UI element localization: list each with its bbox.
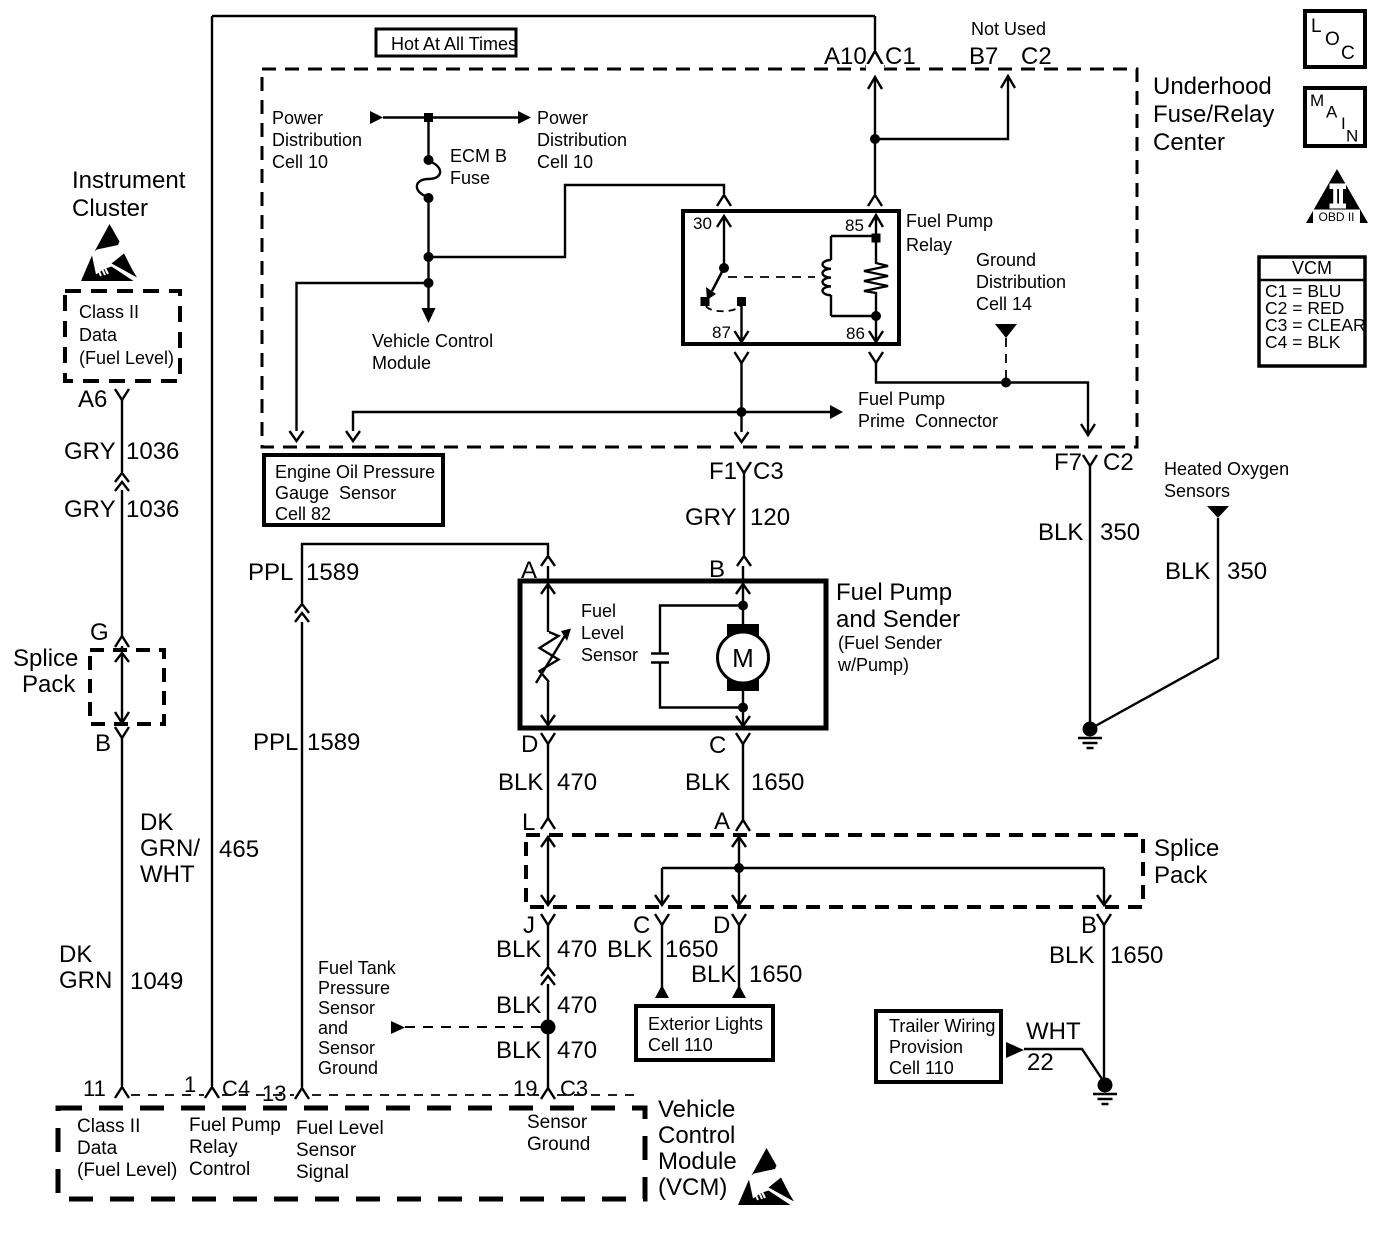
connector: VCM pin 19/C3 [541, 1088, 555, 1099]
svg-text:F1: F1 [709, 458, 737, 485]
arrow: exterior lights D [732, 985, 746, 998]
node: fuse tap square [424, 113, 433, 122]
splice L internal double arrow [547, 837, 549, 905]
Vehicle Control Module dashed box [58, 1108, 645, 1199]
svg-text:BLK: BLK [496, 992, 541, 1019]
svg-text:C3: C3 [753, 458, 784, 485]
svg-text:Splice: Splice [13, 645, 78, 672]
svg-text:VCM: VCM [1292, 258, 1332, 278]
svg-text:B: B [709, 556, 725, 583]
svg-text:w/Pump): w/Pump) [837, 655, 909, 675]
connector: below relay pin 86 [869, 352, 883, 363]
svg-text:470: 470 [557, 936, 597, 963]
svg-text:465: 465 [219, 836, 259, 863]
svg-text:Data: Data [77, 1138, 118, 1159]
svg-text:C: C [1341, 43, 1355, 64]
node: splice bus junction [734, 863, 744, 873]
svg-text:Sensor: Sensor [318, 1038, 375, 1058]
svg-text:Sensor: Sensor [296, 1140, 357, 1161]
wire: power feed horizontal [383, 116, 518, 118]
connector: pump C [736, 733, 750, 744]
ESD symbol instrument cluster [81, 224, 137, 281]
svg-text:Cluster: Cluster [72, 195, 148, 222]
svg-text:A6: A6 [78, 386, 107, 413]
svg-text:Ground: Ground [976, 250, 1036, 270]
svg-text:BLK: BLK [1038, 519, 1083, 546]
relay resistor [864, 215, 888, 316]
fuel level sensor wire with arrows [547, 566, 549, 727]
svg-text:BLK: BLK [1165, 558, 1210, 585]
svg-text:1589: 1589 [307, 729, 360, 756]
svg-text:Cell 10: Cell 10 [537, 152, 593, 172]
connector: fuel pump B [737, 556, 751, 566]
connector: relay pin30 inline [717, 195, 731, 206]
relay switch pivot node [719, 263, 729, 273]
svg-text:C1: C1 [885, 43, 916, 70]
motor nodes [738, 601, 748, 611]
svg-text:Center: Center [1153, 129, 1225, 156]
fuel level sensor wiper arrow [536, 634, 566, 683]
svg-text:30: 30 [693, 214, 712, 233]
ESD symbol VCM [738, 1148, 794, 1205]
svg-text:Distribution: Distribution [976, 272, 1066, 292]
connector: A10/C1 at fuse center border [866, 51, 884, 67]
relay pin 30 arrow up [717, 216, 731, 227]
wire: top-left long horizontal from x=212 to A10 wire [212, 15, 875, 17]
svg-text:Provision: Provision [889, 1037, 963, 1057]
relay pin 86 arrow down [875, 316, 877, 341]
svg-text:Vehicle: Vehicle [658, 1096, 735, 1123]
svg-text:Heated Oxygen: Heated Oxygen [1164, 459, 1289, 479]
Engine Oil Pressure Gauge Sensor box [264, 455, 443, 525]
svg-text:BLK: BLK [498, 769, 543, 796]
svg-text:Ground: Ground [527, 1134, 590, 1155]
wire: splice branch C [661, 868, 663, 905]
Splice Pack dashed box (right) [526, 835, 1143, 907]
connector: B splice [115, 727, 129, 738]
svg-text:L: L [1311, 16, 1322, 37]
svg-text:Cell 110: Cell 110 [889, 1058, 954, 1078]
svg-text:D: D [521, 731, 538, 758]
svg-text:and: and [318, 1018, 348, 1038]
svg-text:Pressure: Pressure [318, 978, 390, 998]
svg-text:Vehicle Control: Vehicle Control [372, 331, 493, 351]
svg-text:87: 87 [712, 323, 731, 342]
svg-text:Cell 110: Cell 110 [648, 1035, 713, 1055]
node: junction to B7 [870, 134, 880, 144]
connector: VCM pin 1/C4 [205, 1087, 219, 1098]
svg-text:86: 86 [846, 324, 865, 343]
wire: to fuel pump relay pin 30 [429, 185, 725, 257]
svg-text:Splice: Splice [1154, 835, 1219, 862]
svg-text:Module: Module [372, 353, 431, 373]
relay coil top node square [872, 234, 881, 243]
chevron break GRY wire [115, 473, 129, 491]
svg-text:BLK: BLK [607, 936, 652, 963]
svg-text:C: C [633, 912, 650, 939]
svg-text:Cell 10: Cell 10 [272, 152, 328, 172]
arrow to Power Distribution left [370, 111, 383, 124]
svg-text:OBD II: OBD II [1318, 210, 1354, 224]
wire: BLK 350 left [1089, 466, 1091, 724]
svg-text:Trailer Wiring: Trailer Wiring [889, 1016, 995, 1036]
svg-text:D: D [713, 912, 730, 939]
svg-text:1036: 1036 [126, 496, 179, 523]
svg-text:1589: 1589 [306, 559, 359, 586]
svg-text:BLK: BLK [496, 1037, 541, 1064]
svg-text:Fuel Pump: Fuel Pump [189, 1115, 281, 1136]
wire: pin 87 down to F1 [740, 412, 742, 432]
svg-text:Distribution: Distribution [272, 130, 362, 150]
wire: pin 86 to F7 [876, 363, 1088, 434]
node: junction to relay feed [424, 252, 434, 262]
svg-text:ECM B: ECM B [450, 146, 507, 166]
svg-text:Sensors: Sensors [1164, 481, 1230, 501]
connector: relay pin85 inline [868, 195, 882, 206]
svg-text:GRN: GRN [59, 967, 112, 994]
svg-text:470: 470 [557, 992, 597, 1019]
svg-text:GRY: GRY [685, 504, 737, 531]
OBD II symbol [1306, 169, 1368, 223]
connector: splice L [541, 818, 555, 829]
svg-text:Hot At All Times: Hot At All Times [391, 34, 517, 54]
wire: motor to C [742, 691, 744, 727]
svg-text:Fuel Pump: Fuel Pump [858, 389, 945, 409]
svg-text:Instrument: Instrument [72, 167, 186, 194]
svg-text:Underhood: Underhood [1153, 73, 1272, 100]
svg-text:N: N [1346, 127, 1358, 146]
connector: F7 C2 [1083, 455, 1097, 466]
thin dashed pin line [131, 1094, 640, 1096]
fuel level sensor zigzag [540, 632, 559, 682]
connector: VCM pin 13 [295, 1088, 309, 1099]
svg-text:Ground: Ground [318, 1058, 378, 1078]
connector: splice A [736, 820, 750, 831]
svg-text:Sensor: Sensor [318, 998, 375, 1018]
Splice Pack dashed box (left) [90, 650, 164, 724]
svg-text:19: 19 [513, 1076, 537, 1101]
wire: BLK 470 D to L [547, 744, 549, 818]
wire: B down to ground [1103, 925, 1105, 1080]
svg-text:(Fuel Level): (Fuel Level) [79, 348, 174, 368]
svg-text:BLK: BLK [496, 936, 541, 963]
svg-text:A10: A10 [824, 43, 867, 70]
svg-text:Fuse/Relay: Fuse/Relay [1153, 101, 1274, 128]
svg-text:1049: 1049 [130, 968, 183, 995]
arrow: ground distribution down triangle [995, 324, 1017, 338]
chevron break PPL wire [295, 604, 309, 622]
svg-text:Module: Module [658, 1148, 737, 1175]
wire: fuse to junction below [427, 198, 429, 308]
splice A internal wire [738, 835, 740, 905]
relay box [683, 211, 899, 344]
svg-text:Gauge Sensor: Gauge Sensor [275, 483, 396, 503]
svg-text:1650: 1650 [1110, 942, 1163, 969]
svg-text:J: J [523, 912, 535, 939]
wire: fuel level sensor signal drop (PPL) [301, 1086, 303, 1087]
wire: C down to exterior lights [661, 925, 663, 988]
svg-text:Signal: Signal [296, 1162, 349, 1183]
relay pin 87 square [737, 297, 746, 306]
arrowhead down at engine oil branch [290, 431, 304, 441]
wire: pin 87 to prime connector junction [740, 363, 742, 412]
LOC box [1305, 11, 1365, 67]
connector: G [115, 636, 129, 647]
node: fuel tank pressure sensor tap [541, 1020, 556, 1035]
svg-text:Class II: Class II [77, 1116, 140, 1137]
VCM connector table [1259, 257, 1365, 366]
connector: fuel pump A [541, 556, 555, 566]
wire: WHT 22 [1024, 1049, 1104, 1082]
svg-text:A: A [521, 557, 537, 584]
arrow+dashed wire: fuel tank pressure sensor [391, 1021, 405, 1034]
svg-text:GRN/: GRN/ [140, 835, 200, 862]
dashed wire from ground distribution [1005, 338, 1007, 383]
svg-text:Relay: Relay [189, 1137, 238, 1158]
svg-text:L: L [522, 809, 535, 836]
svg-text:C2: C2 [1103, 449, 1134, 476]
svg-text:BLK: BLK [1049, 942, 1094, 969]
svg-text:Data: Data [79, 325, 118, 345]
svg-text:1: 1 [184, 1072, 196, 1097]
wire: instrument cluster drop [121, 400, 123, 650]
svg-text:1650: 1650 [751, 769, 804, 796]
svg-text:Power: Power [537, 108, 588, 128]
svg-text:Fuel Pump: Fuel Pump [836, 579, 952, 606]
relay pin 87 wire down [740, 306, 742, 341]
svg-text:Pack: Pack [22, 671, 76, 698]
svg-text:Power: Power [272, 108, 323, 128]
svg-text:Fuel Level: Fuel Level [296, 1118, 384, 1139]
svg-text:Prime Connector: Prime Connector [858, 411, 998, 431]
svg-text:A: A [1326, 103, 1338, 122]
svg-text:DK: DK [59, 941, 92, 968]
Fuel Pump and Sender box [520, 581, 826, 728]
connector: below relay pin 87 [735, 352, 749, 363]
connector: A6 [115, 389, 129, 400]
svg-text:13: 13 [262, 1081, 286, 1106]
connector: F1 C3 [737, 462, 751, 473]
svg-text:F7: F7 [1054, 449, 1082, 476]
relay coil [830, 236, 832, 316]
arrow to Power Distribution right [518, 111, 531, 124]
dashed actuation line to coil [728, 276, 815, 278]
splice pack internal wire [115, 653, 129, 662]
svg-text:Fuel: Fuel [581, 601, 616, 621]
svg-text:Cell 82: Cell 82 [275, 504, 331, 524]
wire: B down to VCM pin 11 [121, 738, 123, 1086]
svg-text:B: B [95, 730, 111, 757]
svg-text:GRY: GRY [64, 438, 116, 465]
ground: heated oxygen [1078, 722, 1102, 749]
svg-text:C: C [709, 732, 726, 759]
relay coil bottom node [871, 311, 881, 321]
wire: PPL 1589 run [302, 544, 548, 1086]
arrow: Vehicle Control Module feed [422, 308, 436, 323]
svg-text:85: 85 [845, 216, 864, 235]
svg-text:470: 470 [557, 1037, 597, 1064]
svg-text:and Sender: and Sender [836, 606, 960, 633]
svg-text:(VCM): (VCM) [658, 1174, 727, 1201]
svg-text:M: M [732, 643, 754, 673]
svg-text:1650: 1650 [665, 936, 718, 963]
svg-text:1036: 1036 [126, 438, 179, 465]
capacitor [651, 654, 669, 663]
svg-text:WHT: WHT [1026, 1018, 1081, 1045]
svg-text:BLK: BLK [691, 961, 736, 988]
svg-text:C4: C4 [222, 1076, 250, 1101]
connector: B (splice) [1097, 914, 1111, 925]
Trailer Wiring Provision box [876, 1011, 1001, 1082]
wire: long left vertical line x=212 from top to VCM pin 1 [211, 16, 213, 1086]
svg-text:PPL: PPL [253, 729, 298, 756]
svg-text:Pack: Pack [1154, 862, 1208, 889]
arrow: heated oxygen sensors down triangle [1207, 506, 1229, 518]
wire: BLK 350 right [1090, 518, 1218, 729]
svg-text:Class II: Class II [79, 302, 139, 322]
wire: BLK 1650 C to A [742, 744, 744, 820]
svg-text:22: 22 [1027, 1049, 1054, 1076]
svg-text:C3: C3 [560, 1076, 588, 1101]
svg-text:Control: Control [189, 1159, 250, 1180]
svg-text:Sensor: Sensor [527, 1112, 588, 1133]
svg-text:Relay: Relay [906, 235, 952, 255]
connector: pump D [541, 733, 555, 744]
wire: to engine oil cell branch [353, 412, 742, 431]
MAIN box [1305, 88, 1365, 146]
ground: trailer/B [1093, 1078, 1117, 1105]
dashed arc between contact and pin 87 [706, 306, 740, 311]
wire: GRY 120 [743, 473, 745, 555]
svg-text:Cell 14: Cell 14 [976, 294, 1032, 314]
chevron break BLK wire [541, 967, 555, 985]
wire: D down to exterior lights [738, 925, 740, 988]
connector: J [541, 914, 555, 925]
svg-text:Control: Control [658, 1122, 735, 1149]
svg-text:Distribution: Distribution [537, 130, 627, 150]
Exterior Lights box [636, 1006, 773, 1060]
svg-text:(Fuel Sender: (Fuel Sender [838, 633, 942, 653]
svg-text:Level: Level [581, 623, 624, 643]
connector: VCM pin 11 [115, 1087, 129, 1098]
wire: left branch to Engine Oil Pressure cell [297, 283, 429, 431]
wire: down from A10 connector with up arrowhead [868, 77, 882, 89]
svg-text:DK: DK [140, 809, 173, 836]
svg-text:BLK: BLK [685, 769, 730, 796]
wire: A10/C1 drop [874, 16, 876, 50]
Class II Data dashed box [65, 291, 180, 381]
svg-text:A: A [714, 808, 730, 835]
svg-text:O: O [1325, 29, 1340, 50]
wire+arrow: fuel pump prime connector [742, 411, 831, 413]
svg-text:Fuel Pump: Fuel Pump [906, 211, 993, 231]
svg-text:350: 350 [1100, 519, 1140, 546]
svg-text:120: 120 [750, 504, 790, 531]
svg-text:Exterior Lights: Exterior Lights [648, 1014, 763, 1034]
svg-text:B7: B7 [969, 43, 998, 70]
svg-text:WHT: WHT [140, 861, 195, 888]
wire: B into pump [742, 566, 744, 624]
arrow: trailer wiring WHT [1006, 1042, 1024, 1058]
svg-text:B: B [1081, 912, 1097, 939]
arrowhead up pin 85 [869, 215, 883, 227]
arrow: exterior lights C [655, 985, 669, 998]
svg-text:Fuse: Fuse [450, 168, 490, 188]
wire: splice bus horizontal [662, 867, 1104, 869]
svg-text:11: 11 [83, 1076, 106, 1101]
svg-text:PPL: PPL [248, 559, 293, 586]
relay switch arm [712, 268, 724, 291]
svg-text:470: 470 [557, 769, 597, 796]
wire: branch to B7 not used [875, 76, 1008, 139]
svg-text:M: M [1310, 91, 1324, 110]
relay contact square [701, 297, 710, 306]
svg-text:(Fuel Level): (Fuel Level) [77, 1160, 177, 1181]
wire: J down to VCM pin 19 [547, 925, 549, 1088]
fuse ECM B [424, 155, 434, 165]
svg-text:1650: 1650 [749, 961, 802, 988]
svg-text:350: 350 [1227, 558, 1267, 585]
svg-text:GRY: GRY [64, 496, 116, 523]
arrowhead up at B7 [1001, 76, 1015, 88]
svg-text:C2: C2 [1021, 43, 1052, 70]
svg-text:Engine Oil Pressure: Engine Oil Pressure [275, 462, 435, 482]
svg-text:Not Used: Not Used [971, 19, 1046, 39]
svg-text:C4 = BLK: C4 = BLK [1265, 332, 1341, 352]
svg-text:Fuel Tank: Fuel Tank [318, 958, 397, 978]
connector: D (splice) [732, 914, 746, 925]
fuel pump motor [727, 624, 759, 640]
Hot At All Times box [376, 29, 516, 56]
connector: C (splice) [655, 914, 669, 925]
Underhood Fuse/Relay Center dashed border [262, 69, 1137, 447]
wire: splice branch B [1103, 868, 1105, 905]
svg-text:G: G [90, 619, 109, 646]
wire: from tap down to fuse [427, 118, 429, 161]
node: junction to engine oil gauge [424, 278, 434, 288]
svg-text:Sensor: Sensor [581, 645, 638, 665]
